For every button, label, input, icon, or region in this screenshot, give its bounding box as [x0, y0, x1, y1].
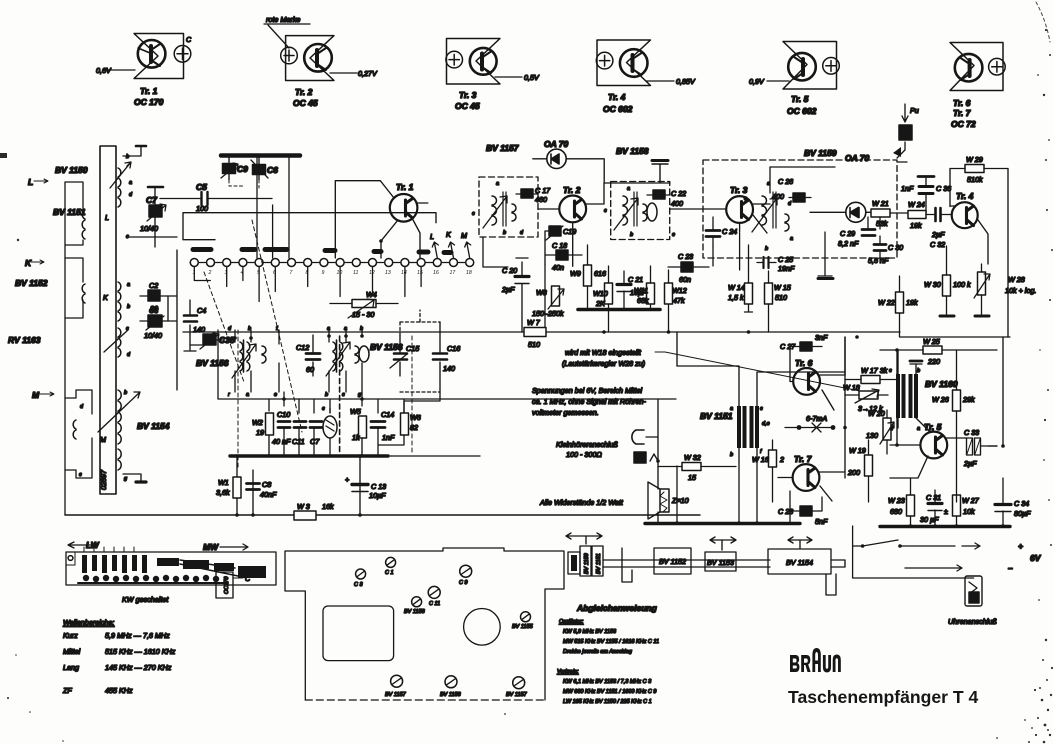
- resistor W2 19: [266, 413, 274, 435]
- IF transformer coils (mixer): [333, 342, 336, 371]
- coil BV1153 box: [705, 552, 736, 571]
- svg-text:C 1: C 1: [385, 570, 394, 576]
- svg-text:6V: 6V: [1030, 553, 1042, 563]
- svg-text:2µF: 2µF: [963, 459, 977, 468]
- svg-text:BV 1159: BV 1159: [804, 148, 837, 158]
- IF transformer BV1157 (dashed box): [479, 177, 538, 237]
- transistor legend Tr.6/Tr.7 OC72: [950, 43, 1005, 130]
- svg-text:KW 6,1 MHz BV 1153 /: KW 6,1 MHz BV 1153 / 7,3 MHz C 3: [563, 679, 652, 685]
- svg-text:C2: C2: [149, 281, 158, 290]
- svg-text:15: 15: [417, 270, 423, 276]
- wire: coil b to trimmer branch: [123, 146, 142, 156]
- wire: C15/C16 dashed link: [400, 310, 440, 392]
- svg-text:19nF: 19nF: [778, 264, 795, 273]
- driver transformer BV1151: [737, 406, 759, 448]
- svg-text:–: –: [1008, 563, 1013, 573]
- svg-text:b: b: [917, 368, 920, 374]
- svg-text:C15: C15: [406, 344, 420, 353]
- svg-text:Vorkreis:: Vorkreis:: [557, 669, 579, 675]
- resistor W5 1k: [359, 416, 367, 438]
- svg-text:Tr. 7: Tr. 7: [953, 108, 972, 118]
- battery switch: [853, 526, 980, 549]
- resistor W4 15-30: [352, 300, 376, 308]
- transistor Tr.7: [793, 464, 820, 491]
- resistor W29 510k: [965, 165, 984, 173]
- wire: oscillator bus y=399: [218, 330, 676, 399]
- wire: Tr.2 emitter down: [545, 222, 573, 266]
- tuner shaft: [603, 560, 845, 567]
- svg-text:C5: C5: [196, 182, 207, 192]
- svg-text:d: d: [129, 192, 133, 198]
- svg-text:68k: 68k: [637, 296, 649, 305]
- loudspeaker Z=10: [660, 489, 669, 512]
- svg-text:C 27: C 27: [780, 342, 796, 351]
- svg-text:10k: 10k: [963, 507, 975, 516]
- svg-text:15 - 30: 15 - 30: [352, 310, 374, 319]
- trimmer capacitor C15: [399, 335, 401, 376]
- svg-text:Tr. 6: Tr. 6: [953, 98, 971, 108]
- wire: diode links: [810, 211, 871, 213]
- capacitor C30 5,6nF: [874, 245, 886, 251]
- svg-text:BV 1158: BV 1158: [616, 146, 649, 156]
- svg-text:c: c: [322, 406, 325, 412]
- ground bus IF (thick): [578, 308, 660, 312]
- svg-text:Wellenbereiche:: Wellenbereiche:: [63, 618, 114, 627]
- svg-text:2µF: 2µF: [501, 285, 515, 294]
- svg-text:d: d: [788, 201, 792, 207]
- capacitor C20 2uF: [515, 275, 529, 278]
- capacitor C28 5nF: [800, 506, 812, 516]
- svg-text:C 3: C 3: [354, 582, 364, 588]
- resistor W7 510: [524, 328, 546, 337]
- svg-text:C9: C9: [237, 164, 248, 174]
- resistor W1 3,6k: [233, 477, 241, 498]
- trimmer capacitor C9: [223, 164, 236, 174]
- svg-text:C 22: C 22: [671, 189, 686, 198]
- svg-text:c: c: [889, 368, 892, 374]
- transistor legend Tr.2 OC45 + rote Marke: [264, 15, 378, 108]
- svg-text:C3: C3: [149, 306, 158, 315]
- svg-text:OC 602: OC 602: [787, 106, 817, 116]
- screw BV1158b: [412, 597, 422, 607]
- variable resistor W28 10k+log: [978, 272, 986, 295]
- svg-text:b: b: [325, 392, 328, 398]
- svg-text:11: 11: [353, 270, 358, 276]
- svg-text:5nF: 5nF: [815, 517, 828, 526]
- ground bus audio (thick): [645, 522, 800, 525]
- resistor W10 2K: [605, 283, 613, 304]
- svg-text:200: 200: [847, 468, 860, 477]
- transistor legend Tr.1 OC170: [96, 34, 192, 108]
- ground Tr.4 stage: [940, 315, 954, 318]
- BRAUN logo: [790, 648, 841, 673]
- capacitor C17 460: [516, 193, 538, 195]
- svg-text:W6: W6: [410, 413, 421, 422]
- Pu pickup connector: [899, 125, 912, 140]
- coil BV1153 with arrow: [118, 328, 121, 357]
- switch output box OC170: [216, 572, 233, 598]
- svg-text:e: e: [274, 392, 277, 398]
- svg-text:30 µF: 30 µF: [920, 515, 939, 524]
- svg-text:c: c: [604, 208, 607, 214]
- wire: speaker/jack verticals: [645, 461, 800, 523]
- svg-text:60: 60: [306, 365, 314, 374]
- svg-text:K: K: [103, 293, 109, 302]
- svg-text:a: a: [127, 282, 130, 288]
- svg-text:b: b: [630, 232, 633, 238]
- svg-text:W5: W5: [350, 407, 362, 416]
- svg-text:C16: C16: [447, 344, 460, 353]
- svg-text:BV 1150: BV 1150: [55, 165, 88, 175]
- capacitor C25 19nF: [757, 262, 776, 264]
- svg-text:BV 1151: BV 1151: [53, 207, 86, 217]
- svg-text:Tr. 2: Tr. 2: [563, 185, 581, 195]
- svg-text:OC 45: OC 45: [293, 98, 318, 108]
- transistor Tr.1: [390, 194, 418, 222]
- svg-text:±: ±: [944, 507, 948, 516]
- svg-text:M: M: [100, 435, 106, 444]
- svg-text:K: K: [446, 230, 452, 239]
- svg-text:1nF: 1nF: [901, 184, 914, 193]
- svg-text:d: d: [228, 326, 232, 332]
- terminal strip: 18 terminals: [190, 262, 470, 264]
- svg-text:400: 400: [772, 192, 784, 201]
- svg-text:Abgleichanweisung: Abgleichanweisung: [576, 603, 658, 613]
- BV1158 windings: [623, 196, 628, 225]
- resistor W30 100k: [943, 275, 951, 296]
- coil BV1152 box: [654, 548, 691, 574]
- svg-text:9: 9: [322, 270, 325, 276]
- resistor W12 47k: [665, 283, 673, 304]
- svg-text:M: M: [461, 231, 467, 240]
- svg-text:10k + log.: 10k + log.: [1005, 286, 1036, 295]
- svg-text:d: d: [520, 230, 524, 236]
- capacitor C23 60n: [681, 262, 693, 272]
- svg-text:100 k: 100 k: [953, 280, 971, 289]
- svg-text:BV 1158: BV 1158: [440, 692, 462, 698]
- svg-text:Tr. 5: Tr. 5: [791, 94, 809, 104]
- screw BV1157d: [513, 677, 525, 689]
- svg-text:b: b: [127, 304, 130, 310]
- screw C9b: [460, 565, 472, 577]
- capacitor C29 8,2nF: [862, 230, 875, 236]
- svg-text:616: 616: [594, 269, 606, 278]
- coil BV1154 long winding: [118, 390, 121, 470]
- svg-text:BV 1156: BV 1156: [370, 342, 403, 352]
- resistor W6 82: [401, 413, 409, 435]
- capacitor C14 1nF: [371, 422, 385, 428]
- svg-text:W 27: W 27: [962, 496, 980, 505]
- svg-text:Z=10: Z=10: [671, 496, 689, 505]
- svg-text:L: L: [430, 232, 434, 241]
- svg-text:W 29: W 29: [966, 155, 983, 164]
- svg-text:a: a: [246, 392, 249, 398]
- screw C1: [386, 557, 396, 567]
- svg-text:C: C: [245, 574, 251, 583]
- wire: IF verticals: [522, 310, 609, 332]
- svg-text:0,5V: 0,5V: [524, 73, 540, 82]
- wire: dashed trimmer couplings: [229, 180, 259, 188]
- svg-text:C12: C12: [296, 343, 309, 352]
- svg-text:1nF: 1nF: [382, 433, 395, 442]
- svg-text:Kleinhöreranschluß: Kleinhöreranschluß: [556, 440, 619, 449]
- svg-text:510: 510: [528, 340, 540, 349]
- svg-text:13: 13: [385, 270, 391, 276]
- feedback winding: [323, 416, 337, 438]
- svg-text:460: 460: [535, 195, 547, 204]
- trimmer capacitor C35: [203, 334, 216, 345]
- earphone jack: [632, 430, 644, 444]
- svg-text:e: e: [744, 196, 747, 202]
- svg-text:10/40: 10/40: [144, 331, 162, 340]
- svg-text:ZF: ZF: [62, 686, 72, 695]
- svg-text:40nF: 40nF: [260, 490, 277, 499]
- wire: verticals from gang rail to terminals: [257, 157, 289, 258]
- svg-text:Taschenempfänger T 4: Taschenempfänger T 4: [788, 687, 979, 707]
- svg-text:g: g: [124, 476, 128, 482]
- svg-text:BV 1157: BV 1157: [486, 143, 520, 153]
- svg-text:d,e: d,e: [762, 421, 770, 427]
- resistor W27 10k: [953, 495, 961, 516]
- svg-text:BV 1151: BV 1151: [596, 553, 602, 574]
- svg-text:a: a: [129, 180, 132, 186]
- svg-text:c: c: [342, 392, 345, 398]
- svg-text:C 21: C 21: [628, 275, 643, 284]
- transistor Tr.6: [793, 368, 820, 395]
- svg-text:0,6V: 0,6V: [96, 66, 112, 75]
- svg-text:C 30: C 30: [888, 243, 903, 252]
- svg-text:LW 165 KHz BV 1150 / 2: LW 165 KHz BV 1150 / 225 KHz C 1: [563, 699, 652, 705]
- svg-text:W 25: W 25: [923, 337, 941, 346]
- PCB tuning hole: [464, 609, 501, 646]
- svg-text:L: L: [105, 213, 109, 222]
- svg-text:Tr. 6: Tr. 6: [795, 358, 813, 368]
- svg-text:10: 10: [337, 270, 343, 276]
- wire: right column verticals: [988, 337, 1003, 446]
- svg-text:C4: C4: [197, 306, 206, 315]
- svg-text:680: 680: [890, 507, 902, 516]
- svg-text:a: a: [627, 186, 630, 192]
- resistor W9: [584, 265, 592, 286]
- svg-text:BV 1154: BV 1154: [137, 421, 170, 431]
- wire: drops from bus to bottom rail: [237, 456, 360, 515]
- svg-text:10/40: 10/40: [140, 224, 158, 233]
- svg-text:C6: C6: [267, 165, 278, 175]
- svg-text:53k: 53k: [876, 219, 888, 228]
- svg-text:C 18: C 18: [552, 241, 567, 250]
- svg-text:a: a: [917, 426, 920, 432]
- screw C11b: [428, 586, 440, 598]
- svg-text:6-7mA: 6-7mA: [806, 414, 827, 423]
- wire: Pu to amplifier: [897, 142, 907, 162]
- wire: IF extra drops: [483, 183, 749, 332]
- svg-text:3,6k: 3,6k: [216, 488, 230, 497]
- svg-text:C10: C10: [277, 410, 290, 419]
- capacitor C19: [549, 226, 561, 236]
- svg-text:19k: 19k: [910, 221, 922, 230]
- capacitor C27 3nF: [800, 342, 812, 351]
- wire: driver transformer leads: [677, 366, 845, 462]
- svg-text:5,6 nF: 5,6 nF: [868, 256, 889, 265]
- svg-text:150–250k: 150–250k: [532, 309, 564, 318]
- transistor Tr.5: [920, 432, 947, 459]
- svg-text:r: r: [228, 392, 231, 398]
- capacitor C7b: [310, 422, 322, 428]
- svg-text:Tr. 5: Tr. 5: [924, 422, 942, 432]
- capacitor C8 40nF: [247, 484, 260, 490]
- svg-text:Tr. 7: Tr. 7: [794, 454, 813, 464]
- BV1157 windings: [492, 196, 497, 225]
- svg-text:C 29: C 29: [840, 229, 855, 238]
- transistor Tr.2: [559, 196, 586, 223]
- tuning drive chain arrows: [566, 533, 602, 544]
- svg-text:C 28: C 28: [778, 507, 793, 516]
- variable resistor W20 130: [883, 418, 891, 440]
- svg-text:80µF: 80µF: [1014, 509, 1031, 518]
- wire: horizontal bus y=212.7: [183, 213, 436, 240]
- svg-text:BV 1154: BV 1154: [786, 558, 813, 567]
- svg-text:145 KHz — 270 KHz: 145 KHz — 270 KHz: [105, 663, 172, 672]
- ground under BV1159: [818, 232, 832, 276]
- screw BV1157c: [391, 675, 403, 687]
- wire: Tr.1 connections: [335, 181, 428, 258]
- svg-text:W9: W9: [570, 269, 581, 278]
- svg-text:18: 18: [466, 270, 472, 276]
- wire: ground stub under C4: [184, 345, 196, 351]
- wire: Tr.7 connections: [778, 472, 844, 501]
- coil BV1150 top winding: [118, 168, 121, 207]
- svg-text:BV 1155: BV 1155: [512, 624, 534, 630]
- wire: K input bracket: [65, 258, 83, 318]
- diode OA70 (second, ratio det): [846, 202, 866, 222]
- wire: osc coil top connections: [235, 330, 279, 392]
- svg-text:(Lautstärkeregler W28 zu): (Lautstärkeregler W28 zu): [562, 359, 645, 368]
- svg-text:W 14: W 14: [728, 283, 745, 292]
- svg-text:OC 72: OC 72: [951, 119, 976, 129]
- resistor W25 220: [923, 346, 942, 354]
- resistor W26 29k: [953, 390, 961, 411]
- capacitor C12 60: [312, 335, 314, 376]
- svg-text:C 9: C 9: [459, 580, 468, 586]
- svg-text:Pu: Pu: [910, 106, 919, 115]
- svg-text:515 KHz — 1610 KHz: 515 KHz — 1610 KHz: [105, 647, 176, 656]
- svg-text:W 15: W 15: [774, 283, 792, 292]
- svg-text:C 32: C 32: [930, 240, 945, 249]
- transistor Tr.3: [726, 196, 753, 223]
- svg-text:Tr. 1: Tr. 1: [140, 86, 158, 96]
- svg-text:W11: W11: [634, 286, 648, 295]
- svg-text:MW 515 KHz BV 1155 / 16: MW 515 KHz BV 1155 / 1616 KHz C 11: [563, 639, 659, 645]
- svg-text:voltmeter gemessen.: voltmeter gemessen.: [532, 408, 599, 417]
- wire: Tr.6 connections: [790, 337, 845, 410]
- svg-text:2: 2: [208, 270, 212, 276]
- svg-text:e: e: [672, 232, 675, 238]
- capacitor C26 400: [793, 193, 805, 202]
- svg-text:BV 1151: BV 1151: [700, 411, 733, 421]
- svg-text:Tr. 4: Tr. 4: [956, 191, 974, 201]
- svg-text:W4: W4: [366, 290, 377, 299]
- resistor W14 1,5k: [745, 283, 753, 304]
- variable resistor W8 150-250k: [552, 286, 560, 306]
- svg-text:C7: C7: [310, 437, 320, 446]
- svg-text:BV 1150: BV 1150: [584, 552, 590, 574]
- svg-text:C8: C8: [262, 480, 271, 489]
- svg-text:W 22: W 22: [878, 298, 895, 307]
- junction dots on rails: [602, 330, 606, 334]
- svg-text:BV 1152: BV 1152: [15, 278, 48, 288]
- terminal numbers 1-18: [193, 270, 472, 276]
- svg-text:C 33: C 33: [964, 428, 979, 437]
- wire: c-winding to tuner: [128, 236, 177, 238]
- svg-text:60n: 60n: [679, 275, 691, 284]
- svg-text:BV 1157: BV 1157: [385, 692, 407, 698]
- svg-text:W12: W12: [672, 286, 687, 295]
- capacitor C5 100: [160, 198, 272, 200]
- tuning capacitor plates (thick marks): [193, 247, 211, 252]
- svg-text:W 16: W 16: [752, 455, 769, 464]
- resistor W22 19k: [896, 292, 904, 313]
- resistor W11 68k: [647, 283, 655, 304]
- svg-text:17: 17: [450, 270, 457, 276]
- svg-text:0,27V: 0,27V: [358, 69, 378, 78]
- screw BV1158c: [445, 676, 457, 688]
- capacitor C32 2uF: [936, 208, 941, 221]
- svg-text:Lang: Lang: [63, 663, 79, 672]
- svg-text:C11: C11: [292, 437, 305, 446]
- trimmer capacitor C6: [253, 165, 266, 175]
- svg-text:C 31: C 31: [926, 493, 941, 502]
- band switch labels: [68, 542, 98, 548]
- shaft hanger tabs: [622, 548, 836, 595]
- wire: battery minus lead: [853, 546, 974, 578]
- svg-text:2: 2: [779, 455, 784, 464]
- svg-text:BV 1160: BV 1160: [925, 379, 958, 389]
- wire: output transformer leads: [898, 350, 930, 432]
- ground bus right (thick): [880, 525, 1010, 528]
- svg-text:Tr. 3: Tr. 3: [459, 90, 477, 100]
- battery connector: [965, 576, 982, 606]
- trimmer capacitor C7 10/40: [149, 205, 162, 217]
- wire: BV1159 internals: [770, 167, 880, 229]
- svg-text:510k: 510k: [967, 175, 983, 184]
- capacitor C11: [294, 422, 306, 428]
- svg-text:16k: 16k: [322, 502, 334, 511]
- svg-text:16: 16: [433, 270, 439, 276]
- svg-text:1k: 1k: [352, 433, 360, 442]
- svg-text:455 KHz: 455 KHz: [105, 686, 133, 695]
- capacitor C34 80uF: [995, 503, 1011, 506]
- PCB inner rectangle: [323, 606, 394, 661]
- svg-text:Kurz: Kurz: [63, 631, 78, 640]
- svg-text:b: b: [126, 154, 129, 160]
- svg-text:2µF: 2µF: [931, 230, 945, 239]
- svg-text:a: a: [790, 236, 793, 242]
- svg-text:b: b: [730, 452, 733, 458]
- svg-text:b: b: [765, 246, 768, 252]
- capacitor C18 40n: [556, 250, 568, 260]
- svg-text:Mittel: Mittel: [63, 647, 81, 656]
- svg-text:C 17: C 17: [535, 186, 551, 195]
- svg-text:LW: LW: [86, 540, 100, 550]
- ground bus (thick) oscillator: [230, 454, 388, 457]
- IF transformer BV1158 (dashed box): [611, 182, 670, 240]
- capacitor C31 30uF: [928, 502, 942, 505]
- svg-text:C 24: C 24: [722, 227, 737, 236]
- svg-text:82: 82: [410, 423, 418, 432]
- ground above BV1158: [652, 164, 668, 182]
- svg-text:19: 19: [256, 428, 264, 437]
- svg-text:2K: 2K: [595, 299, 606, 308]
